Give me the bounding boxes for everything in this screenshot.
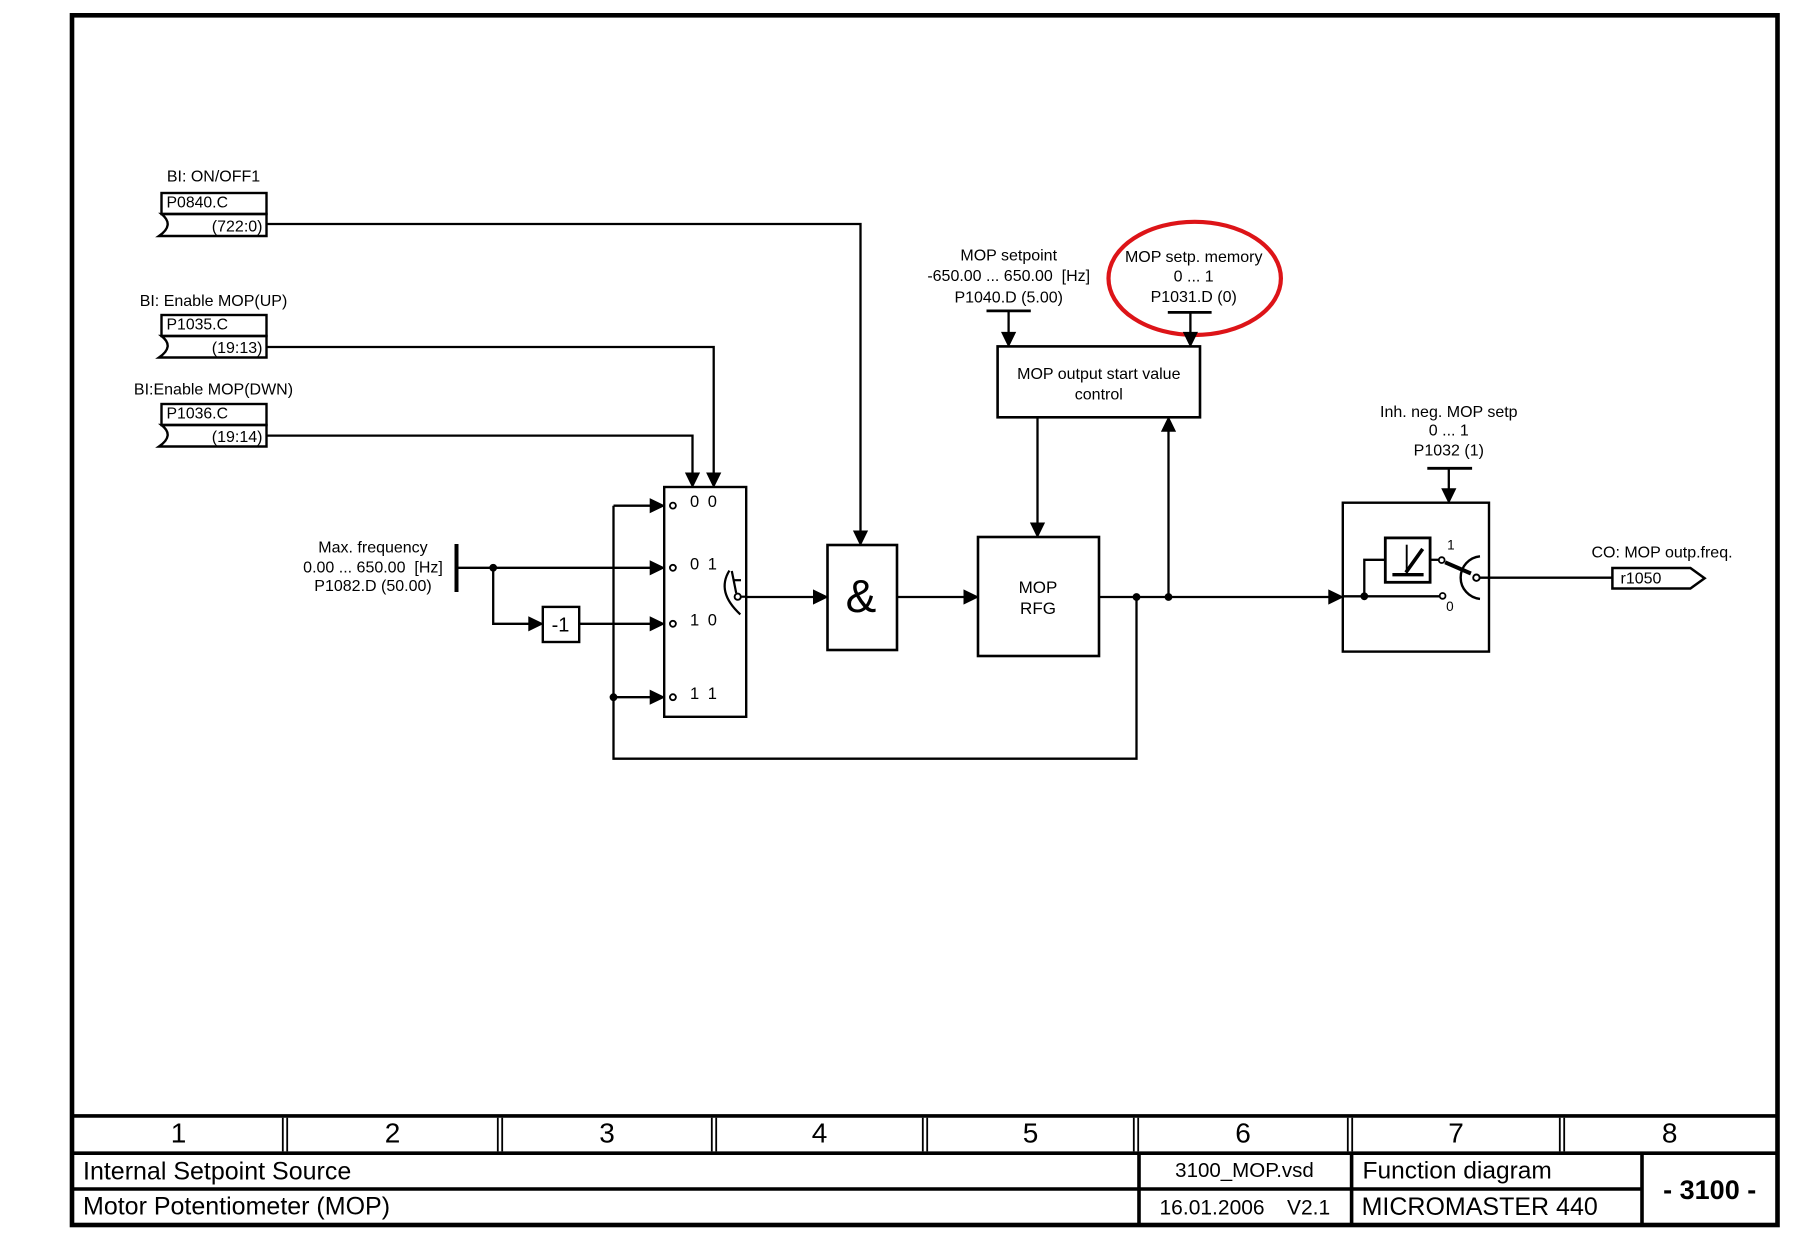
wire inverter to selector row 1 0 — [579, 623, 650, 625]
wire selector to AND gate — [746, 596, 814, 598]
svg-text:P1036.C: P1036.C — [167, 406, 228, 423]
selector switch block — [664, 487, 746, 717]
zone divider 4|5 — [923, 1118, 927, 1152]
wire Max frequency to selector row 0 1 — [457, 567, 651, 569]
title column divider left — [1137, 1153, 1141, 1225]
switch contact 0 — [1440, 593, 1446, 599]
svg-text:control: control — [1075, 387, 1123, 404]
switch lever — [1445, 562, 1471, 573]
selector input contact 1 0 — [670, 621, 676, 627]
svg-text:1: 1 — [708, 685, 717, 703]
svg-text:0: 0 — [1446, 599, 1454, 614]
svg-text:CO: MOP outp.freq.: CO: MOP outp.freq. — [1591, 545, 1732, 562]
zone divider 5|6 — [1134, 1118, 1138, 1152]
title column divider middle — [1350, 1153, 1354, 1225]
label 1 0 — [690, 611, 717, 629]
svg-text:7: 7 — [1448, 1118, 1464, 1149]
wire junction down to inverter — [493, 568, 529, 624]
wire P1035 to selector input 1 — [267, 347, 714, 474]
svg-text:r1050: r1050 — [1621, 571, 1662, 588]
svg-text:BI: ON/OFF1: BI: ON/OFF1 — [167, 169, 260, 186]
svg-text:MICROMASTER 440: MICROMASTER 440 — [1362, 1193, 1598, 1221]
wire P1032 into limiter block — [1448, 468, 1450, 489]
selector input contact 0 0 — [670, 503, 676, 509]
label 0 1 — [690, 555, 717, 573]
svg-text:8: 8 — [1662, 1118, 1678, 1149]
zone divider 7|8 — [1560, 1118, 1564, 1152]
parameter label MOP setpoint P1040 — [927, 248, 1090, 307]
parameter input bar P1040 — [987, 309, 1031, 312]
wire ramp limiter to 1 contact — [1430, 559, 1439, 561]
svg-text:P1082.D (50.00): P1082.D (50.00) — [314, 578, 431, 595]
wire switch output to r1050 — [1480, 577, 1613, 579]
zone divider 1|2 — [283, 1118, 287, 1152]
svg-text:MOP: MOP — [1019, 578, 1058, 597]
svg-text:Max. frequency: Max. frequency — [318, 539, 427, 556]
arrow into inverter — [529, 617, 543, 631]
svg-text:1: 1 — [1447, 538, 1455, 553]
svg-text:MOP setpoint: MOP setpoint — [960, 248, 1057, 265]
svg-text:6: 6 — [1235, 1118, 1251, 1149]
wire junction up to ramp limiter — [1364, 560, 1385, 597]
parameter label MOP setp. memory P1031 — [1125, 249, 1263, 306]
junction inside limiter block — [1360, 592, 1368, 600]
svg-text:P1035.C: P1035.C — [167, 317, 228, 334]
binector input P0840 (BI: ON/OFF1) — [159, 169, 267, 236]
parameter label Inh. neg. MOP setp P1032 — [1380, 404, 1518, 460]
arrow into AND gate left — [814, 590, 828, 604]
connector output r1050 — [1612, 568, 1704, 589]
svg-text:16.01.2006: 16.01.2006 — [1160, 1197, 1265, 1220]
svg-text:-1: -1 — [552, 615, 570, 637]
selector wiper lever — [732, 571, 736, 593]
wire bus to selector row 1 1 — [614, 696, 651, 698]
arrow into start value control bottom — [1162, 417, 1176, 431]
svg-text:1: 1 — [690, 685, 699, 703]
binector input P1035 (BI: Enable MOP(UP)) — [140, 293, 288, 358]
block MOP output start value control — [998, 346, 1200, 417]
arrow into start value control top right — [1184, 332, 1198, 346]
arrow into selector row 0 0 — [650, 499, 664, 513]
parameter label Max. frequency P1082 — [303, 539, 443, 595]
svg-text:(722:0): (722:0) — [212, 219, 263, 236]
arrow into selector row 1 0 — [650, 617, 664, 631]
title column divider right — [1640, 1153, 1644, 1225]
parameter input bar P1031 — [1168, 311, 1212, 314]
arrow into limiter block left — [1329, 590, 1343, 604]
svg-text:P1031.D (0): P1031.D (0) — [1151, 289, 1237, 306]
svg-text:5: 5 — [1023, 1118, 1039, 1149]
svg-text:2: 2 — [385, 1118, 401, 1149]
svg-text:1: 1 — [690, 611, 699, 629]
wire wiper to selector output — [741, 596, 746, 598]
arrow into start value control top left — [1002, 332, 1016, 346]
feedback bus wire — [614, 506, 1137, 759]
svg-text:0 ... 1: 0 ... 1 — [1174, 269, 1214, 286]
wire P0840 to AND gate vertical — [267, 224, 861, 532]
binector input P1036 (BI:Enable MOP(DWN)) — [134, 381, 293, 446]
svg-text:0 ... 1: 0 ... 1 — [1429, 423, 1469, 440]
wire MOP RFG output to limiter block — [1099, 596, 1329, 598]
zone divider 6|7 — [1348, 1118, 1352, 1152]
label 0 0 — [690, 493, 717, 511]
switch rotation arc — [1461, 556, 1480, 599]
red highlight ellipse around P1031 — [1109, 222, 1281, 335]
svg-text:0: 0 — [690, 555, 699, 573]
junction RFG output to feedback bus — [1133, 593, 1141, 601]
label 1 1 — [690, 685, 717, 703]
arrow into selector row 0 1 — [650, 561, 664, 575]
title block top line — [72, 1114, 1778, 1118]
selector input contact 1 1 — [670, 694, 676, 700]
wire P1036 to selector input 0 — [267, 436, 693, 474]
svg-text:-650.00 ... 650.00 [Hz]: -650.00 ... 650.00 [Hz] — [927, 268, 1090, 285]
svg-text:Internal Setpoint Source: Internal Setpoint Source — [83, 1158, 351, 1186]
parameter input bar P1082 — [455, 544, 459, 592]
wire bus to selector row 0 0 — [614, 505, 651, 507]
junction RFG output to start value control — [1165, 593, 1173, 601]
svg-text:V2.1: V2.1 — [1287, 1197, 1330, 1220]
svg-text:MOP setp. memory: MOP setp. memory — [1125, 249, 1263, 266]
wire AND gate to MOP RFG — [897, 596, 965, 598]
wire inside limiter block to 0 contact — [1343, 595, 1439, 597]
arrow into selector row 1 1 — [650, 690, 664, 704]
selector wiper contact — [735, 594, 741, 600]
wire P1031 into start value control — [1189, 312, 1191, 333]
block MOP RFG — [978, 537, 1099, 656]
arrow into MOP RFG top — [1031, 523, 1045, 537]
svg-text:0: 0 — [690, 493, 699, 511]
selector input contact 0 1 — [670, 565, 676, 571]
arrow into MOP RFG left — [964, 590, 978, 604]
ramp limiter symbol box — [1385, 538, 1430, 582]
title row divider line — [72, 1187, 1642, 1191]
svg-text:4: 4 — [812, 1118, 828, 1149]
svg-text:0.00 ... 650.00 [Hz]: 0.00 ... 650.00 [Hz] — [303, 559, 443, 576]
svg-text:Function diagram: Function diagram — [1363, 1157, 1552, 1184]
svg-text:Inh. neg. MOP setp: Inh. neg. MOP setp — [1380, 404, 1518, 421]
parameter input bar P1032 — [1427, 467, 1472, 470]
svg-text:RFG: RFG — [1020, 599, 1056, 618]
arrow into AND gate top — [854, 531, 868, 545]
wire P1040 into start value control — [1007, 311, 1009, 333]
svg-text:1: 1 — [171, 1118, 187, 1149]
limiter switch block — [1343, 503, 1489, 652]
wire feedback to start value control — [1167, 431, 1169, 597]
svg-text:P1040.D (5.00): P1040.D (5.00) — [954, 290, 1063, 307]
junction on Max frequency wire — [489, 564, 497, 572]
svg-text:MOP output start value: MOP output start value — [1017, 366, 1180, 383]
svg-text:1: 1 — [708, 555, 717, 573]
svg-text:&: & — [846, 570, 877, 622]
selector wiper tick — [734, 579, 742, 581]
svg-text:0: 0 — [708, 493, 717, 511]
svg-text:BI: Enable MOP(UP): BI: Enable MOP(UP) — [140, 293, 288, 310]
wire start value control to MOP RFG — [1036, 417, 1038, 523]
svg-text:P1032 (1): P1032 (1) — [1414, 443, 1484, 460]
svg-text:(19:14): (19:14) — [212, 429, 263, 446]
arrow into selector top right — [707, 473, 721, 487]
inverter block -1 — [543, 607, 579, 642]
title block numbered row bottom line — [72, 1151, 1778, 1155]
zone divider 3|4 — [712, 1118, 716, 1152]
svg-text:(19:13): (19:13) — [212, 340, 263, 357]
switch contact 1 — [1439, 557, 1445, 563]
selector rotation arc — [725, 571, 741, 615]
AND gate U1 — [828, 545, 898, 650]
svg-text:P0840.C: P0840.C — [167, 195, 228, 212]
svg-text:- 3100 -: - 3100 - — [1663, 1175, 1756, 1205]
junction feedback bus row 1 1 — [610, 693, 618, 701]
zone divider 2|3 — [498, 1118, 502, 1152]
arrow into selector top left — [686, 473, 700, 487]
svg-text:BI:Enable MOP(DWN): BI:Enable MOP(DWN) — [134, 381, 293, 398]
svg-text:0: 0 — [708, 611, 717, 629]
switch output contact — [1473, 575, 1479, 581]
arrow into limiter block top — [1442, 489, 1456, 503]
svg-text:3100_MOP.vsd: 3100_MOP.vsd — [1175, 1159, 1314, 1182]
svg-text:Motor Potentiometer (MOP): Motor Potentiometer (MOP) — [83, 1193, 390, 1221]
svg-text:3: 3 — [599, 1118, 615, 1149]
